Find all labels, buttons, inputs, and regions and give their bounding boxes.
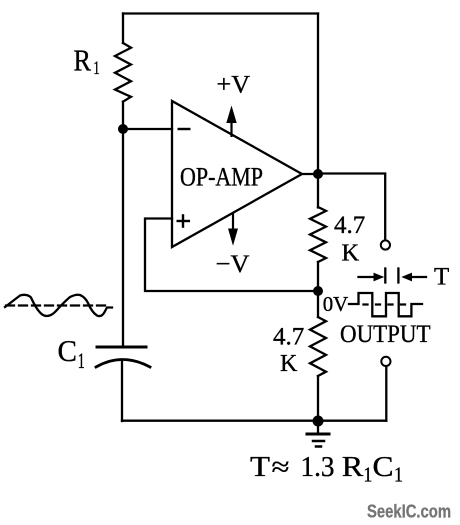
svg-text:R: R <box>342 452 364 483</box>
svg-text:OUTPUT: OUTPUT <box>340 321 431 348</box>
svg-text:R: R <box>74 43 92 78</box>
svg-text:+V: +V <box>217 72 251 99</box>
svg-text:1: 1 <box>394 463 403 487</box>
svg-text:C: C <box>58 333 78 368</box>
svg-text:T: T <box>434 264 449 291</box>
svg-text:OP-AMP: OP-AMP <box>180 163 263 192</box>
svg-text:1: 1 <box>78 348 85 373</box>
svg-text:4.7: 4.7 <box>273 324 304 351</box>
svg-text:1: 1 <box>93 58 100 79</box>
svg-text:−V: −V <box>216 251 250 278</box>
svg-text:0V: 0V <box>323 292 349 316</box>
svg-text:SeekIC.com: SeekIC.com <box>367 501 451 522</box>
svg-text:1.3: 1.3 <box>301 452 335 483</box>
svg-text:C: C <box>373 452 394 483</box>
svg-text:≈: ≈ <box>272 452 290 483</box>
svg-text:K: K <box>280 351 298 377</box>
svg-text:K: K <box>342 240 360 267</box>
svg-text:1: 1 <box>363 463 372 487</box>
svg-text:4.7: 4.7 <box>334 212 365 239</box>
svg-text:T: T <box>250 452 270 483</box>
